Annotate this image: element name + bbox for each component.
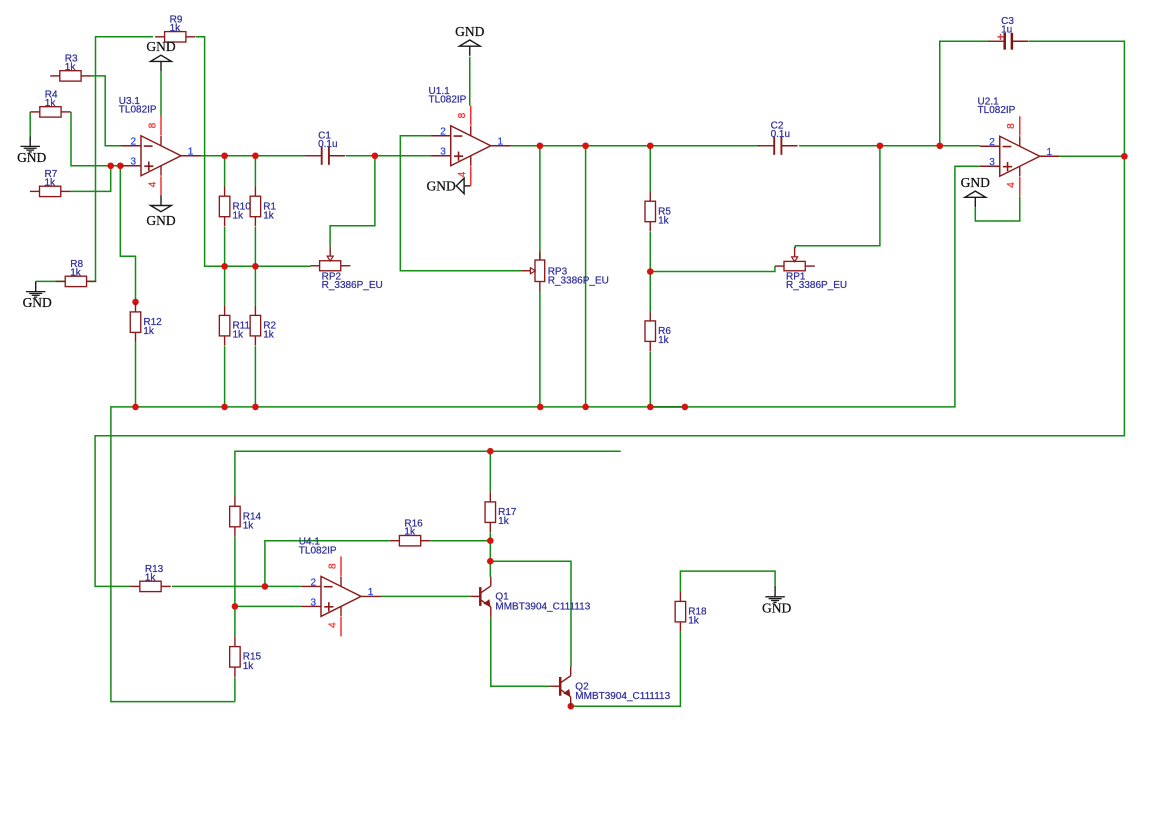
wire (539, 252, 541, 260)
wire (490, 561, 571, 667)
svg-text:1k: 1k (45, 98, 57, 109)
svg-text:GND: GND (17, 150, 46, 165)
wire (172, 585, 301, 587)
junction (bus R2) (252, 404, 259, 411)
wire (254, 346, 256, 407)
ground (U1.1 V+) (455, 24, 484, 56)
wire (585, 146, 587, 407)
wire (71, 112, 121, 166)
wire (539, 146, 541, 252)
wire (111, 166, 980, 701)
wire (400, 136, 522, 271)
wire (795, 146, 880, 248)
svg-text:1k: 1k (232, 330, 244, 341)
svg-text:TL082IP: TL082IP (978, 105, 1016, 116)
svg-text:1k: 1k (70, 267, 82, 278)
junction (bus RP3) (537, 404, 544, 411)
junction (R12 top) (132, 299, 139, 306)
wire (571, 632, 681, 706)
wire (224, 346, 226, 407)
resistor R12 (130, 302, 141, 342)
svg-text:3: 3 (311, 597, 317, 608)
junction (R10 top) (221, 152, 228, 159)
wire (940, 41, 990, 146)
svg-text:0.1u: 0.1u (771, 129, 790, 140)
svg-text:GND: GND (961, 175, 990, 190)
wire (381, 595, 470, 597)
junction (out1 bus drop) (582, 142, 589, 149)
resistor R14 (230, 497, 241, 537)
svg-text:1k: 1k (232, 211, 244, 222)
svg-text:R_3386P_EU: R_3386P_EU (322, 280, 383, 291)
junction (U3.1 pin3 / R7) (107, 162, 114, 169)
svg-text:GND: GND (762, 600, 791, 615)
wire (254, 266, 256, 305)
wire (539, 292, 541, 407)
ground (R8) (23, 281, 52, 310)
resistor R17 (485, 492, 496, 532)
svg-text:GND: GND (146, 213, 175, 228)
junction (R1 top) (252, 152, 259, 159)
junction (R16 right) (487, 537, 494, 544)
capacitor C1 (306, 147, 346, 165)
svg-text:4: 4 (147, 181, 158, 187)
ground (U3.1 V+) (146, 39, 175, 71)
svg-text:MMBT3904_C111113: MMBT3904_C111113 (575, 691, 670, 702)
resistor R3 (50, 71, 90, 81)
wire (95, 41, 1124, 586)
ground (U2.1) (961, 175, 990, 207)
junction (R17 top) (487, 448, 494, 455)
junction (C3 left branch) (936, 142, 943, 149)
resistor R11 (219, 306, 230, 346)
resistor R15 (230, 637, 241, 677)
wire (224, 156, 226, 187)
svg-text:1k: 1k (263, 330, 275, 341)
wire (160, 71, 162, 116)
wire (196, 37, 311, 266)
junction (C1 / RP2 wiper) (372, 152, 379, 159)
wire (234, 677, 236, 701)
capacitor C2 (758, 137, 798, 155)
junction (U2.1 out / C3 / feedback) (1121, 153, 1128, 160)
wire (235, 537, 301, 607)
potentiometer RP2 (311, 246, 351, 270)
resistor R8 (56, 276, 97, 286)
op-amp U4.1 TL082IP (301, 556, 381, 636)
junction (R5 top) (647, 142, 654, 149)
junction (Q2 emitter) (568, 703, 575, 710)
junction (U3.1 pin3 / R12 branch) (117, 162, 124, 169)
ground (R4) (17, 137, 46, 165)
svg-text:1k: 1k (658, 335, 670, 346)
svg-text:2: 2 (311, 577, 317, 588)
transistor Q2 (550, 666, 571, 706)
wire (224, 227, 226, 266)
resistor R18 (675, 592, 686, 632)
svg-text:8: 8 (457, 112, 468, 118)
junction (R1 bottom) (252, 263, 259, 270)
svg-text:GND: GND (23, 295, 52, 310)
resistor R13 (130, 581, 171, 591)
svg-text:TL082IP: TL082IP (299, 545, 337, 556)
svg-text:1k: 1k (688, 616, 700, 627)
svg-text:1k: 1k (658, 216, 670, 227)
svg-text:0.1u: 0.1u (318, 139, 337, 150)
resistor R10 (219, 186, 230, 226)
junction (bus stub) (682, 404, 689, 411)
wire (70, 166, 110, 192)
wire (265, 541, 390, 587)
svg-text:3: 3 (989, 157, 995, 168)
junction (bus R11) (221, 404, 228, 411)
wire (491, 617, 551, 687)
junction (bus R12) (132, 404, 139, 411)
svg-text:GND: GND (427, 179, 456, 194)
svg-text:3: 3 (440, 147, 446, 158)
wire (649, 232, 651, 272)
junction (U4.1 pin2 / R16) (262, 583, 269, 590)
svg-text:TL082IP: TL082IP (429, 95, 467, 106)
svg-text:1k: 1k (145, 572, 157, 583)
ground (U3.1 V-) (146, 196, 175, 229)
junction (U1.1 out / RP3) (537, 142, 544, 149)
svg-text:1: 1 (188, 147, 194, 158)
capacitor C3 (989, 33, 1029, 50)
potentiometer RP1 (775, 247, 815, 271)
resistor R7 (30, 186, 71, 196)
wire (650, 406, 685, 408)
wire (649, 272, 651, 312)
junction (bus R6) (647, 404, 654, 411)
op-amp U3.1 TL082IP (121, 116, 201, 196)
wire (36, 280, 56, 282)
svg-text:1k: 1k (45, 177, 57, 188)
svg-text:GND: GND (146, 39, 175, 54)
svg-text:4: 4 (327, 622, 338, 628)
op-amp U2.1 TL082IP (980, 116, 1060, 196)
wire (680, 571, 775, 591)
wire (469, 57, 471, 106)
wire (254, 227, 256, 266)
svg-text:8: 8 (1006, 123, 1017, 129)
wire (649, 352, 651, 407)
resistor R6 (645, 311, 656, 351)
svg-text:1k: 1k (65, 62, 77, 73)
wire (1060, 155, 1125, 157)
svg-text:R_3386P_EU: R_3386P_EU (786, 280, 847, 291)
svg-text:R_3386P_EU: R_3386P_EU (548, 275, 609, 286)
svg-text:GND: GND (455, 24, 484, 39)
junction (Q2 collector branch) (487, 558, 494, 565)
ground (U1.1 V-) (427, 178, 471, 194)
svg-text:3: 3 (131, 157, 137, 168)
wire (430, 540, 490, 542)
svg-text:1: 1 (1047, 147, 1053, 158)
svg-text:4: 4 (1006, 182, 1017, 188)
wire (489, 532, 491, 576)
ground (R18 net) (762, 586, 791, 616)
wire (346, 155, 431, 157)
svg-text:TL082IP: TL082IP (119, 105, 157, 116)
junction (RP1 wiper branch) (877, 142, 884, 149)
svg-text:1k: 1k (263, 211, 275, 222)
svg-text:MMBT3904_C111113: MMBT3904_C111113 (495, 601, 590, 612)
wire (330, 156, 375, 247)
potentiometer RP3 (522, 252, 545, 293)
wire (511, 145, 761, 147)
wire (29, 112, 31, 137)
junction (R5 bottom) (647, 268, 654, 275)
wire (799, 145, 980, 147)
wire (55, 37, 153, 282)
wire (135, 342, 137, 407)
svg-text:1u: 1u (1001, 24, 1012, 35)
wire (489, 451, 491, 492)
svg-text:2: 2 (440, 127, 446, 138)
junction (U4.1 pin3 / R14 / R15) (232, 603, 239, 610)
wire (235, 451, 621, 497)
wire (120, 166, 135, 302)
resistor R5 (645, 191, 656, 231)
resistor R1 (250, 186, 261, 226)
resistor R9 (155, 32, 196, 42)
resistor R16 (390, 536, 431, 546)
junction (bus out1 drop) (582, 404, 589, 411)
junction (R10 bottom) (221, 263, 228, 270)
svg-text:2: 2 (131, 137, 137, 148)
svg-text:1k: 1k (243, 521, 255, 532)
svg-text:2: 2 (989, 137, 995, 148)
transistor Q1 (470, 577, 491, 617)
svg-text:1k: 1k (498, 516, 510, 527)
resistor R4 (30, 107, 70, 117)
wire (234, 606, 236, 637)
wire (649, 146, 651, 192)
svg-text:1k: 1k (143, 326, 155, 337)
svg-text:8: 8 (327, 563, 338, 569)
svg-text:1: 1 (368, 587, 374, 598)
wire (975, 197, 1019, 221)
wire (201, 155, 306, 157)
svg-text:1: 1 (498, 137, 504, 148)
wire (650, 266, 775, 271)
svg-text:8: 8 (147, 122, 158, 128)
svg-text:1k: 1k (404, 527, 416, 538)
wire (254, 156, 256, 187)
svg-text:1k: 1k (170, 23, 182, 34)
svg-text:1k: 1k (243, 661, 255, 672)
resistor R2 (250, 306, 261, 346)
wire (224, 266, 226, 305)
wire (90, 76, 121, 146)
op-amp U1.1 TL082IP (431, 106, 511, 186)
svg-text:4: 4 (457, 171, 468, 177)
